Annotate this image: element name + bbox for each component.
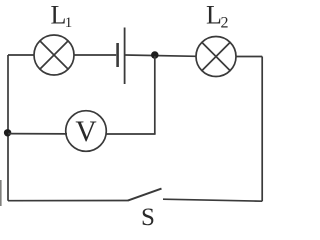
- lamp L2: [196, 37, 236, 77]
- wire left vertical: [7, 55, 9, 201]
- wire left node to voltmeter: [8, 133, 67, 135]
- wire right vertical: [261, 57, 263, 202]
- node junction left: [4, 129, 11, 136]
- wire bottom right: [163, 199, 262, 201]
- lamp L1: [34, 35, 74, 75]
- wire bottom left: [8, 200, 128, 202]
- svg-text:L: L: [206, 0, 222, 29]
- svg-text:2: 2: [221, 15, 229, 32]
- svg-text:V: V: [75, 116, 96, 148]
- left-edge scan artifact (unlabelled): [0, 180, 2, 206]
- wire voltmeter to riser: [106, 133, 156, 135]
- svg-text:S: S: [141, 204, 155, 231]
- wire riser to top node: [154, 56, 156, 134]
- svg-text:1: 1: [65, 15, 73, 31]
- wire top-left horizontal: [8, 54, 34, 56]
- battery cell: [118, 28, 125, 85]
- wire L1 to battery: [74, 54, 116, 56]
- node junction top: [151, 51, 159, 59]
- switch S blade: [128, 189, 162, 201]
- wire battery to L2: [126, 55, 197, 56]
- voltmeter U1 circle: [66, 111, 107, 152]
- wire L2 to right edge: [236, 56, 262, 58]
